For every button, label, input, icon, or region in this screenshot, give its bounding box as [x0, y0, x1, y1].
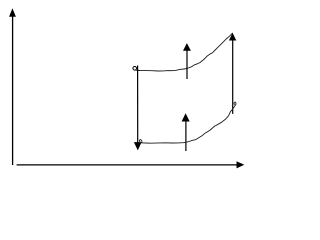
upper curve [136, 33, 233, 71]
down arrowhead on left line [134, 142, 142, 150]
lower curve with pen hooks at both ends [139, 102, 235, 143]
upper middle arrow [183, 43, 191, 79]
state point circle upper-left [133, 67, 137, 71]
x-axis [17, 161, 245, 168]
y-axis [9, 8, 16, 165]
up arrowhead on right line [229, 33, 236, 41]
lower middle arrow [182, 113, 190, 151]
left vertical line [137, 66, 139, 144]
right vertical line [232, 40, 234, 114]
